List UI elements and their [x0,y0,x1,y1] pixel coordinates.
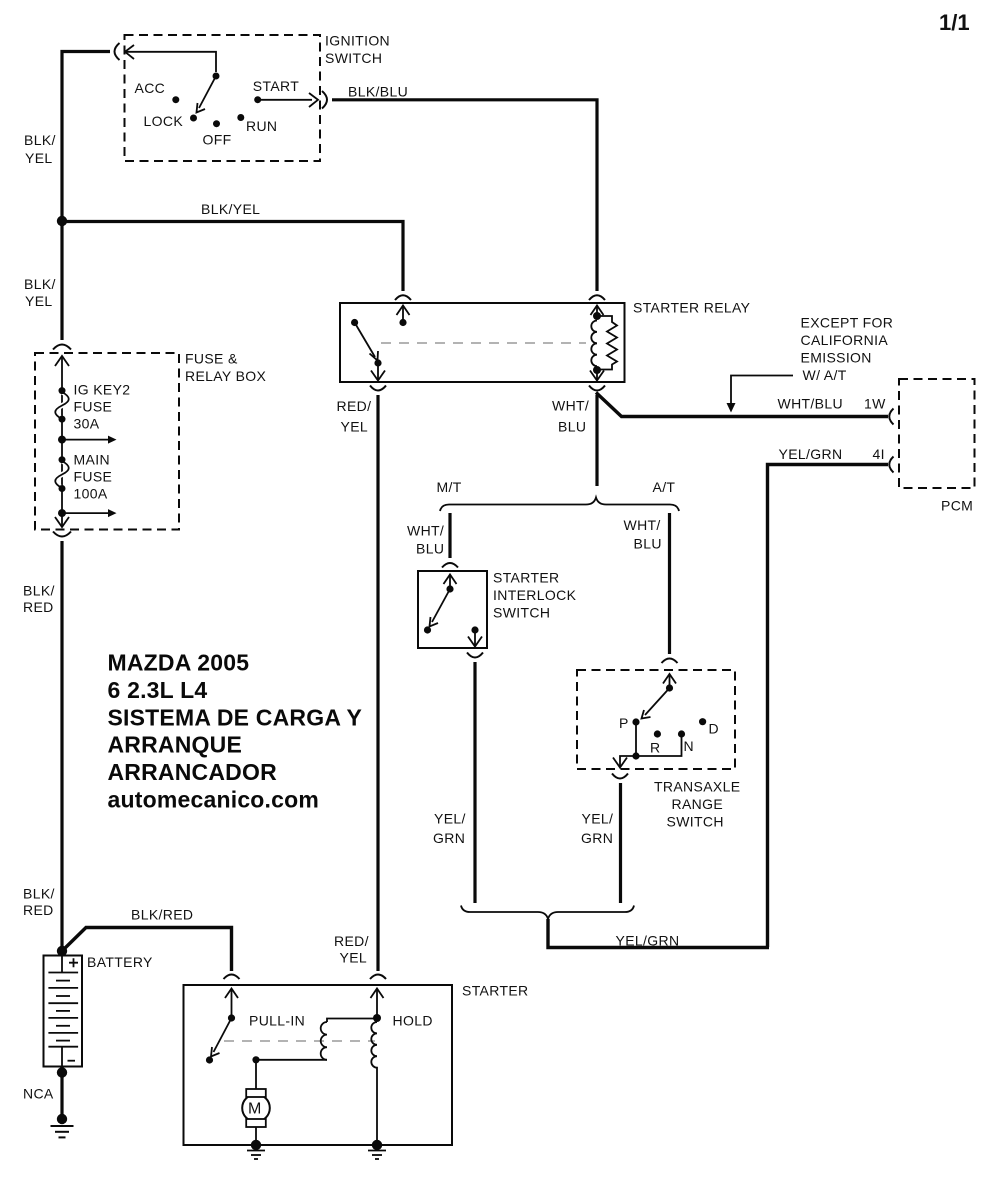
connector into starter interlock switch [442,563,458,568]
pivot contact dot [213,73,220,80]
svg-text:BLU: BLU [558,419,586,435]
svg-text:SWITCH: SWITCH [667,814,724,830]
interlock switch arm [424,575,454,634]
svg-text:IG KEY2: IG KEY2 [74,382,131,398]
svg-text:6 2.3L L4: 6 2.3L L4 [108,677,208,703]
contact LOCK [190,115,197,122]
contact D [699,718,706,725]
svg-text:EMISSION: EMISSION [801,350,872,366]
svg-text:YEL: YEL [340,950,368,966]
arrow entering fuse box [55,356,69,366]
relay switch output terminal [371,359,385,380]
title block [108,650,363,813]
wire WHT/BLU A/T branch [668,513,671,654]
wire YEL/GRN from transaxle switch down [619,783,622,903]
svg-text:NCA: NCA [23,1086,54,1102]
junction node in transaxle switch [632,752,639,759]
starter motor M [242,1060,270,1145]
starter pull-in switch [206,989,235,1064]
wire BLK/YEL horizontal to starter relay [62,222,403,292]
relay switch arm [351,319,378,361]
contact R [654,730,661,737]
svg-text:ARRANCADOR: ARRANCADOR [108,759,278,785]
starter pin arrow (RED/YEL) [371,989,384,999]
connector at ignition switch right pin [322,91,327,109]
junction node with feed arrow (below IG KEY2 fuse) [58,436,117,444]
wire from left pin to wiper pivot [125,52,216,72]
connector at ignition switch left pin [115,43,120,60]
fuse & relay box [35,353,179,530]
starter pin arrow (BLK/RED) [225,989,238,999]
svg-text:YEL: YEL [341,419,369,435]
arrowhead on wiper arm [197,103,206,113]
mechanical link (dashed) relay switch to coil [381,342,586,344]
connector into relay (from BLK/BLU) [589,295,605,300]
svg-text:RED: RED [23,902,54,918]
relay coil parallel resistor [600,316,617,370]
wire BLK/RED from battery to starter [62,928,232,972]
interlock output terminal [468,626,482,646]
svg-text:TRANSAXLE: TRANSAXLE [654,779,740,795]
svg-text:STARTER: STARTER [493,570,560,586]
wire inside fuse box [61,356,63,526]
wire BLK/BLU from ignition switch to starter relay [332,100,597,291]
connector into transaxle range switch [662,659,678,664]
svg-text:M: M [248,1101,261,1118]
note EXCEPT FOR CALIFORNIA EMISSION W/ A/T [801,315,894,384]
ground (battery) [51,1114,74,1138]
ignition switch wiper arm (pivot to LOCK) [199,76,216,108]
svg-text:BATTERY: BATTERY [87,954,153,970]
hold coil [371,1022,377,1145]
svg-text:BLK/: BLK/ [24,132,56,148]
connector into starter (RED/YEL) [370,975,386,980]
interlock pin arrow (top) [444,575,457,585]
relay pin arrow (BLK/YEL entry) [397,306,410,316]
svg-text:RUN: RUN [246,118,277,134]
mechanical link (dashed) pull-in switch to coils [224,1040,375,1042]
svg-text:M/T: M/T [437,479,462,495]
svg-text:GRN: GRN [433,830,465,846]
svg-text:YEL: YEL [25,293,53,309]
svg-text:MAIN: MAIN [74,452,110,468]
ignition switch box [125,35,321,161]
svg-text:W/ A/T: W/ A/T [803,367,847,383]
svg-text:N: N [684,738,694,754]
battery negative terminal node [57,1067,67,1077]
connector below relay (RED/YEL) [370,386,386,391]
leader arrow from note to WHT/BLU wire [727,376,794,413]
arrow into ignition switch (left pin) [125,45,134,59]
svg-text:OFF: OFF [203,132,232,148]
brace merging YEL/GRN wires [461,906,634,920]
svg-text:FUSE &: FUSE & [185,351,238,367]
arrow leaving fuse box (bottom) [55,517,69,527]
svg-text:30A: 30A [74,416,100,432]
svg-text:RELAY BOX: RELAY BOX [185,368,267,384]
svg-text:WHT/: WHT/ [624,517,661,533]
svg-text:YEL/: YEL/ [434,811,466,827]
junction node with feed arrow (below MAIN fuse) [58,509,117,517]
connector into starter (BLK/RED) [224,975,240,980]
svg-text:HOLD: HOLD [393,1013,433,1029]
svg-text:RED/: RED/ [337,398,372,414]
connector at PCM pin 1W [889,409,893,425]
svg-text:YEL/GRN: YEL/GRN [779,446,843,462]
connector into fuse box (top) [53,345,71,350]
svg-text:IGNITION: IGNITION [325,33,390,49]
transaxle range switch box [577,670,735,769]
svg-text:1/1: 1/1 [939,10,970,35]
svg-text:INTERLOCK: INTERLOCK [493,587,577,603]
svg-text:CALIFORNIA: CALIFORNIA [801,332,889,348]
wire YEL/GRN to PCM pin 4I [768,465,889,948]
svg-text:BLU: BLU [634,536,662,552]
connector out of fuse box (bottom) [53,532,71,537]
svg-text:YEL/: YEL/ [582,811,614,827]
contact RUN [237,114,244,121]
svg-text:BLK/RED: BLK/RED [131,907,193,923]
svg-text:BLU: BLU [416,541,444,557]
starter relay box [340,303,625,382]
svg-text:PULL-IN: PULL-IN [249,1013,305,1029]
ground (hold coil) [368,1140,386,1159]
junction node BLK/YEL [57,216,67,226]
transaxle output arrow (bottom) [613,756,636,768]
relay coil output arrow (bottom) [590,370,604,381]
svg-text:SWITCH: SWITCH [325,50,382,66]
contact ACC [172,96,179,103]
contact N [678,730,685,737]
contact P [632,718,639,725]
transaxle switch arm [642,674,674,719]
starter box [184,985,453,1145]
relay coil pin arrow (top) [591,306,604,316]
wire WHT/BLU M/T branch [448,513,451,558]
PCM box [899,379,975,488]
svg-text:R: R [650,740,660,756]
svg-text:4I: 4I [873,446,885,462]
wire WHT/BLU from relay down to M/T-A/T split [595,395,598,486]
arrow at ignition switch right pin [309,93,318,107]
relay switch feed terminal [399,306,406,327]
svg-text:BLK/YEL: BLK/YEL [201,201,260,217]
wire P contact to output [636,722,682,756]
wire RED/YEL from relay to starter [376,395,379,971]
svg-text:100A: 100A [74,486,108,502]
wire NCA battery to ground [60,1073,63,1116]
transaxle pin arrow (top) [663,674,676,684]
svg-text:WHT/: WHT/ [552,398,589,414]
pull-in coil [256,1019,377,1060]
wire BLK/RED from fuse box to battery [60,541,63,951]
svg-text:SISTEMA DE CARGA Y: SISTEMA DE CARGA Y [108,705,363,731]
svg-text:LOCK: LOCK [144,113,184,129]
svg-text:STARTER RELAY: STARTER RELAY [633,300,751,316]
connector at PCM pin 4I [889,457,893,473]
svg-text:SWITCH: SWITCH [493,605,550,621]
connector into relay (coil side, from BLK/YEL) [395,295,411,300]
ground (starter motor) [247,1140,265,1159]
fuse MAIN 100A (element) [55,456,69,492]
svg-text:START: START [253,78,299,94]
svg-text:RED/: RED/ [334,933,369,949]
svg-text:YEL: YEL [25,150,53,166]
svg-text:RED: RED [23,599,54,615]
svg-text:automecanico.com: automecanico.com [108,787,320,813]
wire START contact to right pin [258,99,312,101]
pull-in coil to motor junction [252,1056,259,1063]
svg-text:A/T: A/T [653,479,676,495]
svg-text:FUSE: FUSE [74,469,113,485]
svg-text:MAZDA 2005: MAZDA 2005 [108,650,250,676]
fuse IG KEY2 30A (element) [55,387,69,423]
svg-text:D: D [709,721,719,737]
contact START [254,96,261,103]
svg-text:WHT/: WHT/ [407,523,444,539]
svg-text:FUSE: FUSE [74,399,113,415]
wire WHT/BLU branch to PCM pin 1W [596,393,888,417]
svg-text:BLK/BLU: BLK/BLU [348,84,408,100]
svg-text:ARRANQUE: ARRANQUE [108,732,243,758]
starter interlock switch box [418,571,487,648]
relay coil [591,306,601,375]
svg-text:BLK/: BLK/ [23,886,55,902]
hold coil terminal [373,989,381,1023]
svg-text:GRN: GRN [581,830,613,846]
brace splitting WHT/BLU into M/T and A/T branches [440,498,679,512]
svg-text:BLK/: BLK/ [24,276,56,292]
wire YEL/GRN from interlock switch down [473,662,476,903]
svg-text:P: P [619,715,629,731]
connector below transaxle switch [612,774,628,779]
junction node at battery positive [57,946,67,956]
svg-text:YEL/GRN: YEL/GRN [616,933,680,949]
svg-text:STARTER: STARTER [462,983,529,999]
svg-text:EXCEPT FOR: EXCEPT FOR [801,315,894,331]
svg-text:ACC: ACC [135,80,166,96]
wire YEL/GRN merged to PCM riser [548,919,769,948]
svg-text:BLK/: BLK/ [23,583,55,599]
connector below interlock switch [467,653,483,658]
svg-text:RANGE: RANGE [672,796,724,812]
wire BLK/YEL from ignition switch down left side [62,52,110,341]
connector below relay (WHT/BLU) [589,386,605,391]
svg-text:PCM: PCM [941,498,973,514]
battery [44,953,83,1070]
svg-text:1W: 1W [864,396,886,412]
contact OFF [213,120,220,127]
svg-text:WHT/BLU: WHT/BLU [778,396,843,412]
